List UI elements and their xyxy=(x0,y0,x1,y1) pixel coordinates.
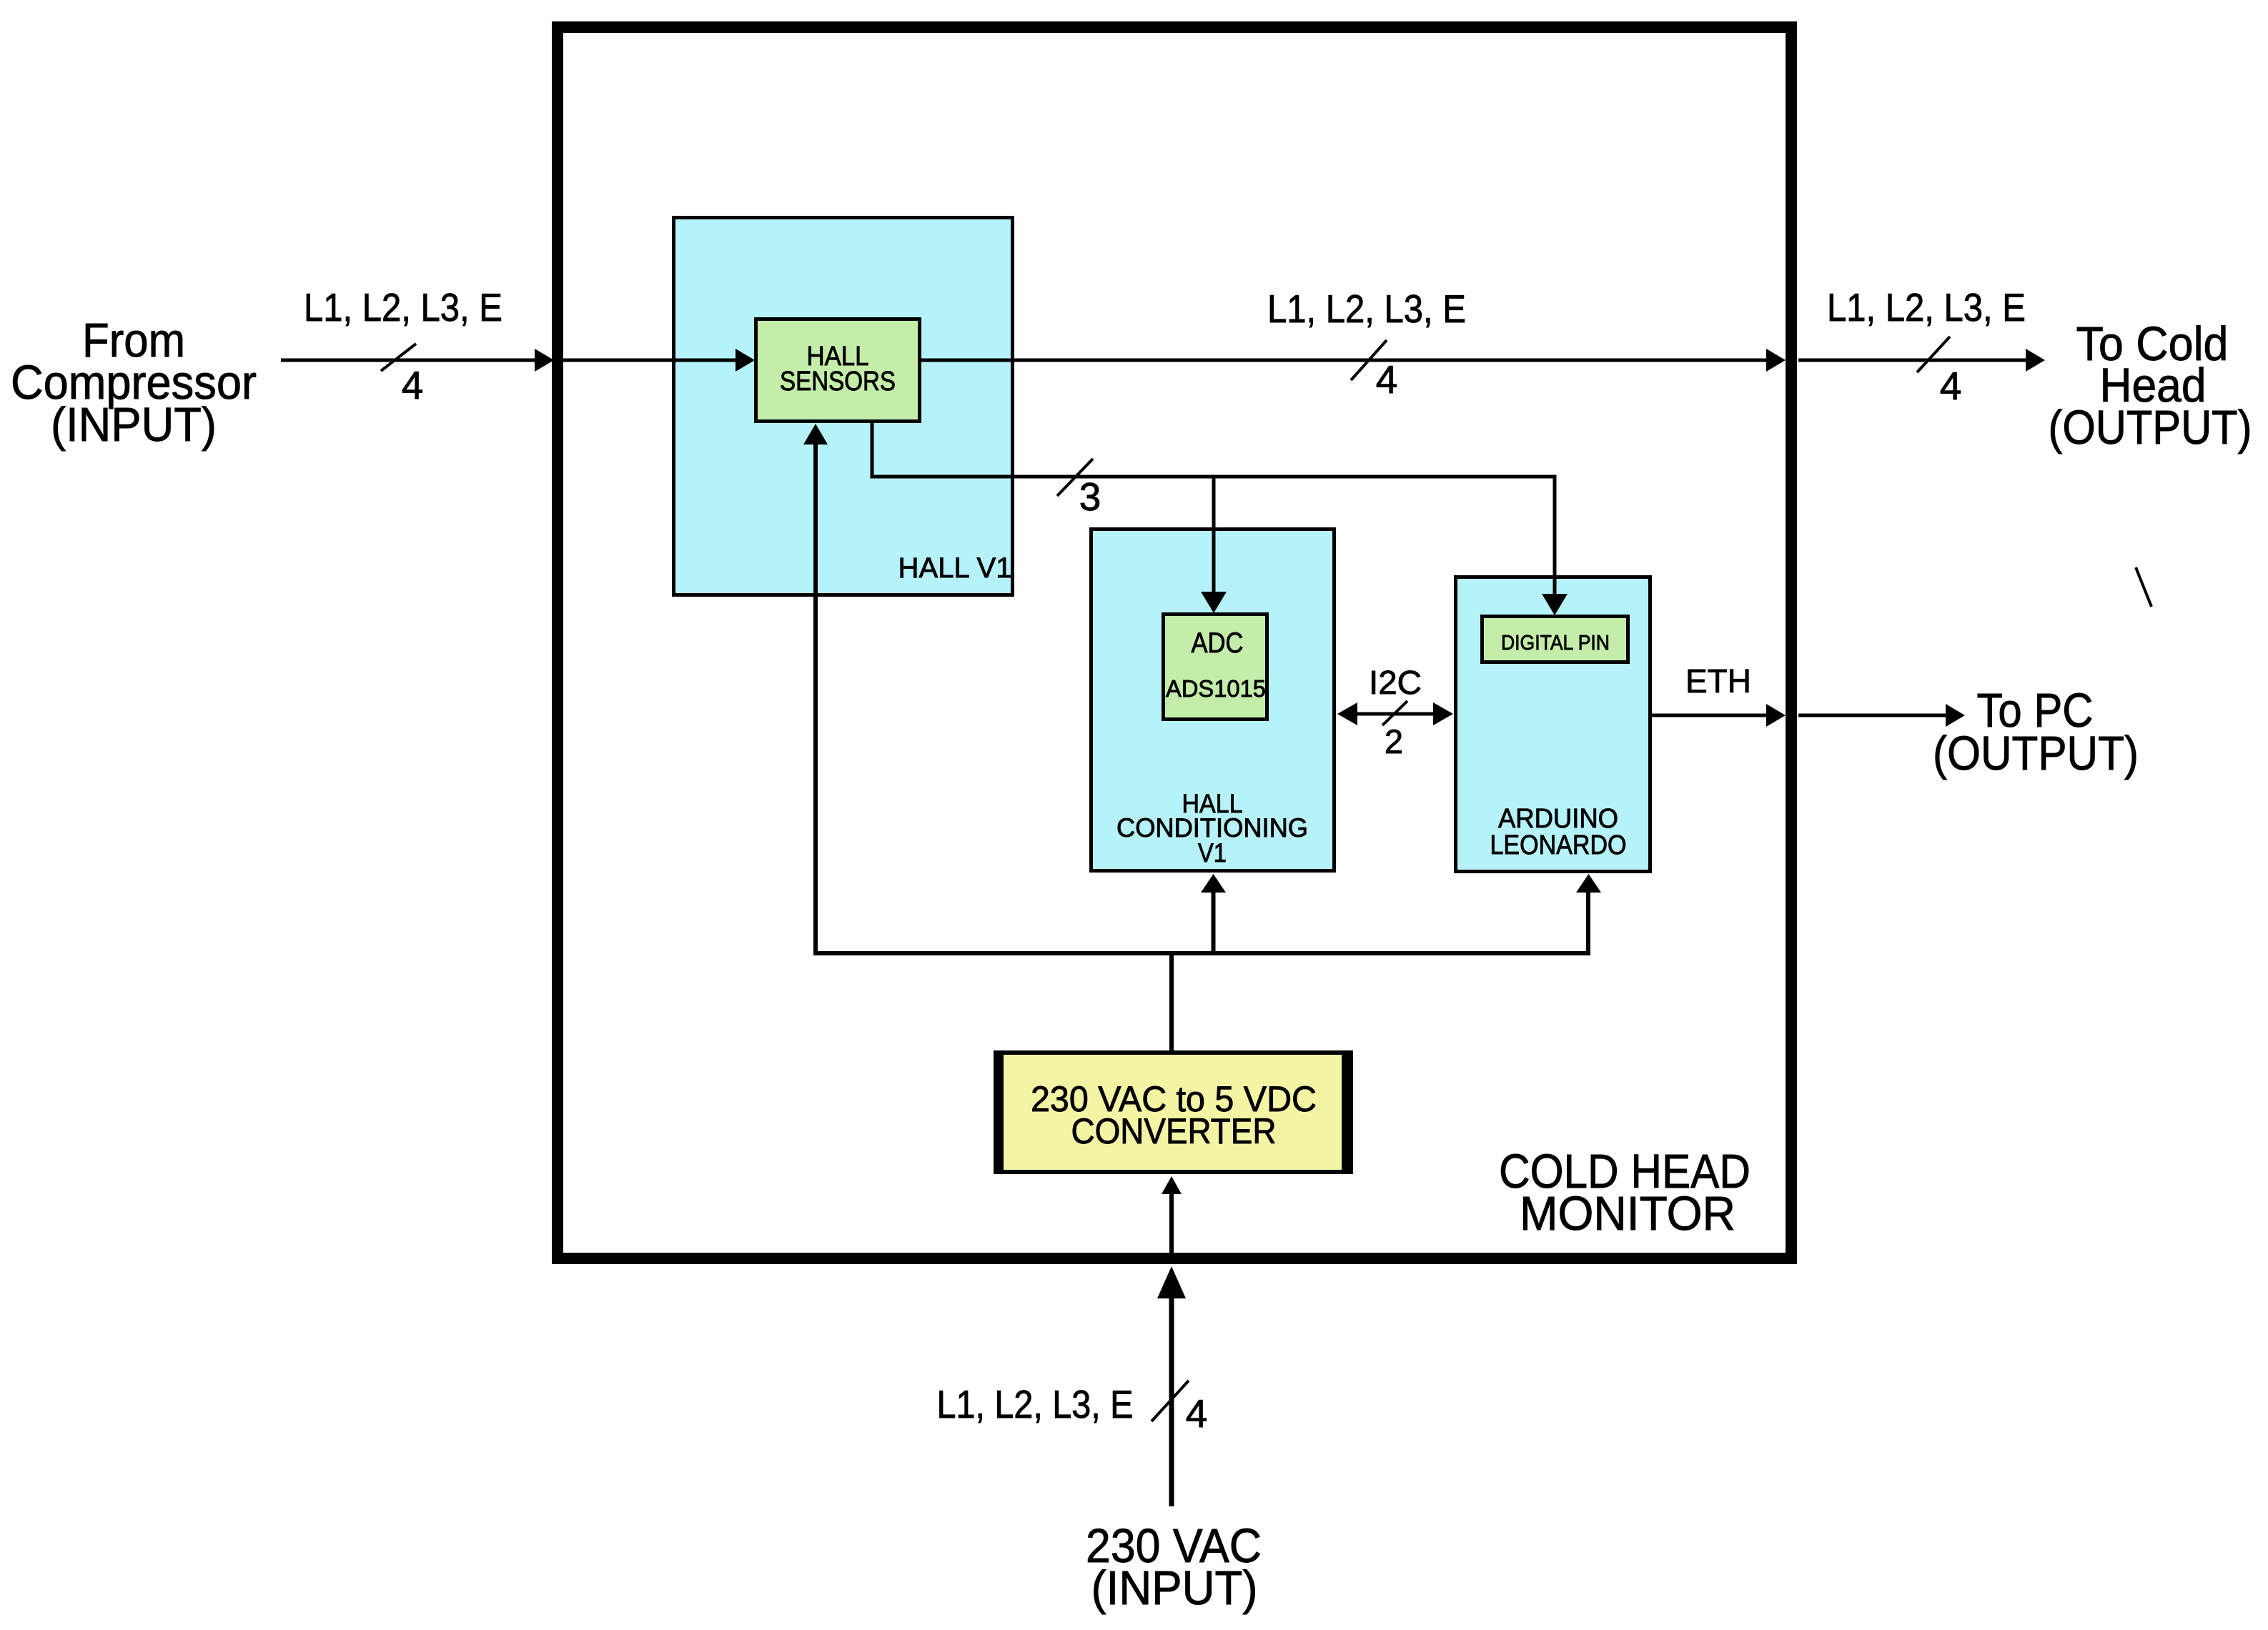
arrowhead into enclosure left xyxy=(535,349,554,372)
svg-text:(INPUT): (INPUT) xyxy=(51,398,217,452)
svg-text:L1, L2, L3, E: L1, L2, L3, E xyxy=(304,285,502,329)
stray backslash mark xyxy=(2136,567,2151,607)
wire converter to rail xyxy=(1169,955,1174,1050)
svg-text:ADS1015: ADS1015 xyxy=(1166,675,1266,702)
wire I2C double arrow xyxy=(1355,712,1435,716)
slash bus-4 left xyxy=(381,344,416,371)
wire 230vac external xyxy=(1169,1297,1174,1506)
svg-text:DIGITAL PIN: DIGITAL PIN xyxy=(1501,632,1610,655)
slash bus-4 right xyxy=(1917,337,1950,372)
label HALL CONDITIONING V1 xyxy=(1116,789,1308,868)
block HALL CONDITIONING V1 xyxy=(1091,530,1334,871)
svg-text:2: 2 xyxy=(1385,722,1403,760)
block 230 VAC to 5 VDC CONVERTER xyxy=(996,1053,1344,1172)
wire power riser to hall sensors xyxy=(813,442,818,955)
svg-text:V1: V1 xyxy=(1198,838,1227,868)
arrowhead into hall sensors bottom xyxy=(803,424,828,444)
svg-text:ADC: ADC xyxy=(1192,627,1244,659)
label COLD HEAD MONITOR xyxy=(1499,1145,1750,1241)
arrowhead into converter bottom xyxy=(1162,1176,1182,1194)
arrowhead 230vac into enclosure xyxy=(1157,1266,1186,1298)
label HALL SENSORS xyxy=(780,342,896,397)
svg-text:ARDUINO: ARDUINO xyxy=(1498,804,1618,834)
slash bus-2 xyxy=(1382,701,1407,725)
wire power rail xyxy=(813,951,1590,955)
svg-text:HALL V1: HALL V1 xyxy=(898,552,1012,584)
enclosure COLD HEAD MONITOR box xyxy=(558,27,1791,1258)
block HALL SENSORS xyxy=(756,319,920,422)
wire ETH to PC outside xyxy=(1798,714,1946,717)
label 230 VAC (INPUT) xyxy=(1086,1519,1262,1615)
block ARDUINO LEONARDO xyxy=(1456,577,1650,872)
arrowhead into digital pin xyxy=(1542,594,1568,615)
arrowhead into ADC xyxy=(1201,592,1227,613)
arrowhead at right border (inside) xyxy=(1766,349,1786,372)
svg-text:SENSORS: SENSORS xyxy=(780,367,896,397)
label To PC (OUTPUT) xyxy=(1933,684,2139,780)
svg-text:(OUTPUT): (OUTPUT) xyxy=(2049,401,2252,454)
wire hall sensors down then right xyxy=(871,422,874,477)
svg-text:4: 4 xyxy=(402,363,424,407)
slash bus-3 xyxy=(1057,459,1093,496)
arrowhead to cold head xyxy=(2026,349,2045,372)
label From Compressor (INPUT) xyxy=(11,314,257,452)
slash bus-4 bottom xyxy=(1152,1381,1189,1421)
svg-text:L1, L2, L3, E: L1, L2, L3, E xyxy=(937,1382,1134,1426)
svg-text:L1, L2, L3, E: L1, L2, L3, E xyxy=(1827,285,2026,329)
svg-text:4: 4 xyxy=(1186,1391,1208,1436)
svg-text:4: 4 xyxy=(1376,357,1398,402)
label 230 VAC to 5 VDC CONVERTER xyxy=(1031,1079,1317,1151)
wire drop to ADC xyxy=(1212,477,1216,592)
wire hall sensors to right border xyxy=(921,359,1768,362)
block HALL V1 xyxy=(674,218,1013,595)
label To Cold Head (OUTPUT) xyxy=(2049,317,2252,454)
svg-text:(OUTPUT): (OUTPUT) xyxy=(1933,727,2139,780)
wire ETH inside xyxy=(1652,714,1768,717)
wire input inside to hall sensors xyxy=(563,359,737,362)
svg-text:3: 3 xyxy=(1079,474,1101,519)
wire input from compressor (outside) xyxy=(281,359,535,362)
arrowhead into hall sensors xyxy=(736,349,755,372)
wire 230vac inside segment xyxy=(1169,1193,1174,1253)
svg-text:ETH: ETH xyxy=(1685,662,1751,700)
wire riser to hall conditioning xyxy=(1212,892,1216,953)
svg-text:L1, L2, L3, E: L1, L2, L3, E xyxy=(1267,287,1466,331)
wire to cold head (outside) xyxy=(1798,359,2027,362)
svg-text:4: 4 xyxy=(1940,364,1962,408)
slash bus-4 middle xyxy=(1351,340,1387,380)
block DIGITAL PIN xyxy=(1482,617,1628,662)
label ARDUINO LEONARDO xyxy=(1490,804,1627,860)
svg-text:MONITOR: MONITOR xyxy=(1520,1187,1735,1241)
svg-text:CONVERTER: CONVERTER xyxy=(1071,1111,1277,1151)
svg-text:I2C: I2C xyxy=(1369,664,1422,701)
wire drop to digital pin xyxy=(1553,477,1557,594)
svg-text:(INPUT): (INPUT) xyxy=(1091,1561,1258,1615)
wire riser to arduino xyxy=(1586,892,1590,953)
block ADC ADS1015 xyxy=(1164,615,1267,720)
svg-text:LEONARDO: LEONARDO xyxy=(1490,830,1627,860)
